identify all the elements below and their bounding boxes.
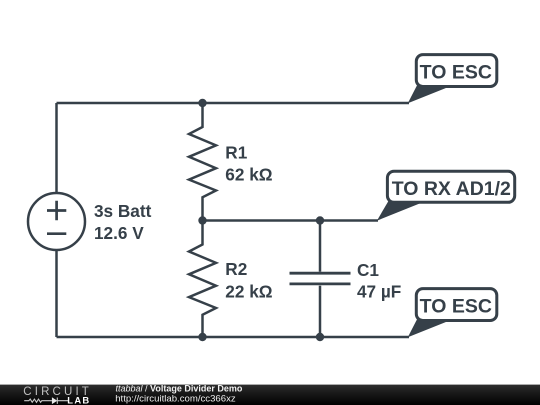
junction node bottom-left (202.5,337): [198, 333, 206, 341]
svg-text:TO ESC: TO ESC: [420, 62, 492, 84]
junction node bottom-right (320,337): [316, 333, 324, 341]
wire middle horizontal: [203, 219, 379, 222]
flag TO ESC bottom bubble: [408, 289, 497, 338]
svg-text:3s Batt: 3s Batt: [94, 201, 152, 221]
flag TO ESC top bubble: [408, 55, 497, 104]
svg-text:C1: C1: [357, 260, 379, 280]
svg-text:22 kΩ: 22 kΩ: [225, 281, 272, 301]
svg-text:R1: R1: [225, 142, 247, 162]
svg-text:ttabbal / Voltage Divider Demo: ttabbal / Voltage Divider Demo: [116, 383, 243, 393]
junction node mid-left (202.5,220.5): [198, 216, 206, 224]
battery label 3s Batt 12.6 V: [94, 201, 152, 243]
capacitor C1 label: [357, 260, 401, 301]
resistor R1 label: [225, 142, 272, 184]
wire left vertical upper: [55, 103, 58, 193]
junction node mid-right (320,220.5): [316, 216, 324, 224]
svg-text:R2: R2: [225, 259, 247, 279]
junction node top (202.5,103): [198, 99, 206, 107]
svg-text:http://circuitlab.com/cc366xz: http://circuitlab.com/cc366xz: [115, 393, 236, 404]
wire bottom horizontal: [57, 336, 410, 339]
resistor R1: [189, 103, 216, 221]
capacitor C1 top lead: [319, 221, 322, 272]
svg-text:12.6 V: 12.6 V: [94, 223, 144, 243]
battery V1 3s Batt circle: [28, 193, 85, 250]
resistor R2 label: [225, 259, 272, 301]
footer bar: [0, 385, 540, 405]
svg-text:TO RX AD1/2: TO RX AD1/2: [392, 178, 511, 200]
capacitor C1 plates: [290, 273, 351, 284]
svg-text:47 µF: 47 µF: [357, 282, 401, 302]
svg-text:62 kΩ: 62 kΩ: [225, 164, 272, 184]
svg-text:TO ESC: TO ESC: [420, 296, 492, 318]
resistor R2: [189, 221, 216, 338]
capacitor C1 bottom lead: [319, 286, 322, 337]
battery minus sign: [47, 232, 66, 235]
wire left vertical lower: [55, 251, 58, 338]
wire top horizontal (node to TO ESC): [57, 102, 410, 105]
CircuitLab logo resistor-diode line: [24, 397, 68, 404]
svg-text:LAB: LAB: [67, 394, 90, 405]
flag TO RX AD1/2 bubble: [377, 171, 515, 220]
battery plus sign: [47, 201, 66, 220]
